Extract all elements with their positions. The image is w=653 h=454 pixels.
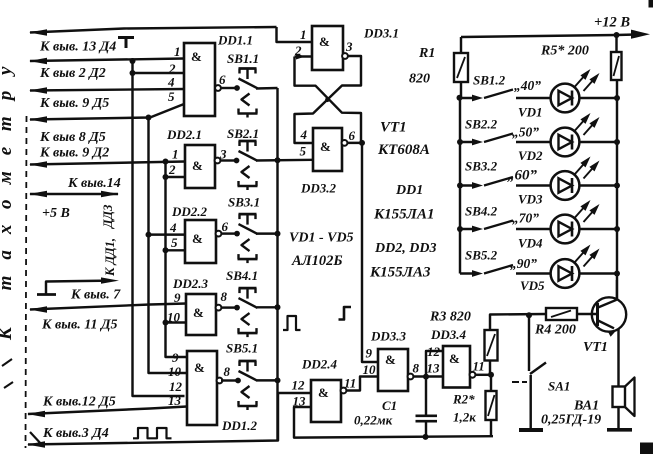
svg-text:2: 2: [294, 43, 302, 58]
svg-text:VD4: VD4: [518, 236, 543, 251]
svg-text:SB5.1: SB5.1: [226, 341, 258, 356]
svg-text:13: 13: [427, 361, 441, 376]
svg-text:VD5: VD5: [520, 278, 545, 293]
svg-text:„60”: „60”: [507, 168, 538, 184]
svg-text:12: 12: [292, 378, 306, 393]
svg-text:К выв. 13 Д4: К выв. 13 Д4: [39, 40, 116, 55]
svg-text:К выв. 11 Д5: К выв. 11 Д5: [41, 318, 118, 333]
svg-text:„50”: „50”: [512, 125, 539, 140]
svg-text:4: 4: [300, 127, 308, 142]
svg-text:SB2.1: SB2.1: [227, 126, 259, 141]
svg-text:1: 1: [300, 27, 307, 42]
svg-text:9: 9: [174, 290, 181, 305]
svg-text:„70”: „70”: [512, 211, 539, 226]
svg-text:10: 10: [363, 362, 377, 377]
svg-text:R1: R1: [418, 46, 435, 61]
svg-text:VT1: VT1: [583, 340, 608, 355]
svg-text:DD1.1: DD1.1: [217, 33, 253, 48]
svg-text:&: &: [194, 360, 205, 375]
svg-text:SB4.2: SB4.2: [465, 204, 498, 219]
svg-text:0,25ГД-19: 0,25ГД-19: [541, 413, 601, 428]
svg-text:VD1: VD1: [518, 105, 543, 120]
svg-text:DD2.3: DD2.3: [172, 276, 209, 291]
svg-text:13: 13: [293, 394, 307, 409]
svg-text:„40”: „40”: [514, 78, 541, 93]
svg-text:SB3.2: SB3.2: [465, 159, 498, 174]
svg-text:&: &: [449, 351, 460, 366]
svg-text:ВА1: ВА1: [573, 399, 599, 414]
svg-text:DD2, DD3: DD2, DD3: [374, 241, 436, 256]
svg-text:VT1: VT1: [380, 120, 407, 136]
svg-text:DD3.1: DD3.1: [363, 26, 399, 41]
svg-text:DD1.2: DD1.2: [221, 418, 258, 433]
svg-text:4: 4: [167, 75, 175, 90]
svg-text:R4 200: R4 200: [534, 323, 576, 338]
svg-text:SB2.2: SB2.2: [465, 117, 498, 132]
svg-text:DD3.4: DD3.4: [430, 327, 467, 342]
svg-text:6: 6: [219, 72, 226, 87]
svg-text:5: 5: [300, 144, 307, 159]
svg-text:К выв. 7: К выв. 7: [70, 288, 121, 303]
svg-text:КТ608А: КТ608А: [377, 142, 430, 158]
svg-text:С1: С1: [382, 398, 397, 413]
svg-text:R5* 200: R5* 200: [540, 44, 589, 59]
svg-text:VD1 - VD5: VD1 - VD5: [289, 231, 354, 246]
svg-text:DD3.3: DD3.3: [370, 329, 407, 344]
svg-text:&: &: [320, 139, 331, 154]
svg-text:12: 12: [169, 379, 183, 394]
svg-text:&: &: [191, 49, 202, 64]
svg-text:2: 2: [168, 162, 176, 177]
svg-text:К тахометру: К тахометру: [0, 51, 16, 341]
svg-text:3: 3: [345, 39, 353, 54]
svg-text:11: 11: [473, 359, 485, 374]
svg-text:8: 8: [221, 289, 228, 304]
svg-text:VD2: VD2: [518, 148, 543, 163]
svg-text:0,22мк: 0,22мк: [354, 413, 393, 428]
svg-text:К выв.12 Д5: К выв.12 Д5: [42, 395, 116, 410]
svg-text:К выв 8 Д5: К выв 8 Д5: [39, 130, 106, 145]
svg-text:8: 8: [224, 364, 231, 379]
svg-text:SB3.1: SB3.1: [228, 195, 260, 210]
svg-text:+5 В: +5 В: [42, 206, 70, 221]
svg-text:К выв 2 Д2: К выв 2 Д2: [39, 66, 106, 81]
svg-text:DD3.2: DD3.2: [300, 181, 337, 196]
svg-text:SB1.2: SB1.2: [473, 73, 506, 88]
svg-text:К выв. 9 Д2: К выв. 9 Д2: [39, 146, 109, 161]
svg-text:К выв. 9 Д5: К выв. 9 Д5: [39, 96, 109, 111]
svg-text:SB1.1: SB1.1: [227, 51, 259, 66]
svg-text:&: &: [192, 231, 203, 246]
svg-text:К155ЛА1: К155ЛА1: [373, 207, 434, 223]
svg-text:SA1: SA1: [548, 379, 570, 394]
svg-text:9: 9: [366, 346, 373, 361]
svg-text:3: 3: [219, 147, 227, 162]
svg-text:ДДЗ: ДДЗ: [101, 204, 115, 229]
svg-text:DD1: DD1: [395, 183, 423, 198]
svg-text:R3 820: R3 820: [429, 310, 471, 325]
svg-text:1: 1: [172, 147, 179, 162]
svg-text:„90”: „90”: [510, 256, 537, 271]
svg-text:5: 5: [168, 89, 175, 104]
svg-text:DD2.1: DD2.1: [166, 127, 202, 142]
svg-text:+12 В: +12 В: [594, 15, 630, 31]
svg-text:13: 13: [168, 393, 182, 408]
svg-text:К155ЛА3: К155ЛА3: [369, 265, 431, 281]
svg-text:6: 6: [349, 128, 356, 143]
svg-text:10: 10: [167, 310, 181, 325]
svg-text:К выв.3 Д4: К выв.3 Д4: [42, 426, 109, 441]
svg-text:&: &: [319, 34, 330, 49]
svg-text:9: 9: [172, 350, 179, 365]
svg-text:&: &: [385, 352, 396, 367]
svg-text:АЛ102Б: АЛ102Б: [291, 253, 343, 269]
svg-text:DD2.2: DD2.2: [171, 204, 208, 219]
svg-text:12: 12: [427, 344, 441, 359]
svg-text:820: 820: [409, 72, 430, 87]
svg-text:К выв.14: К выв.14: [67, 176, 121, 191]
svg-text:SB5.2: SB5.2: [465, 248, 498, 263]
svg-text:6: 6: [222, 219, 229, 234]
svg-text:4: 4: [169, 220, 177, 235]
svg-text:&: &: [192, 158, 203, 173]
svg-text:8: 8: [413, 361, 420, 376]
svg-text:DD2.4: DD2.4: [301, 357, 338, 372]
svg-text:VD3: VD3: [518, 192, 543, 207]
svg-text:1,2к: 1,2к: [453, 410, 476, 425]
svg-text:11: 11: [344, 376, 356, 391]
svg-text:&: &: [193, 305, 204, 320]
svg-text:10: 10: [168, 364, 182, 379]
svg-text:5: 5: [171, 235, 178, 250]
svg-text:&: &: [318, 385, 329, 400]
svg-text:SB4.1: SB4.1: [226, 268, 258, 283]
svg-text:R2*: R2*: [452, 392, 475, 407]
svg-text:1: 1: [174, 44, 181, 59]
svg-text:К ДД1,: К ДД1,: [103, 238, 117, 277]
